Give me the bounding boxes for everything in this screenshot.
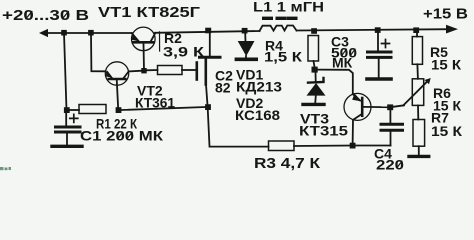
wire R6 to R7 [417,105,419,119]
resistor R4 [308,36,319,62]
node junction R4/VD2/VT3 [312,67,318,73]
svg-text:R3 4,7 К: R3 4,7 К [254,156,320,171]
wire artifact stub [159,32,161,51]
wire C2 down to bottom node [206,85,208,107]
wire top rail VT1 to L1 [155,31,260,33]
svg-text:C1 200 МК: C1 200 МК [80,128,164,144]
svg-text:КС168: КС168 [235,107,280,123]
node junction rail VD1 [242,28,248,34]
wire R7 bottom [418,146,420,154]
svg-text:3,9 К: 3,9 К [163,44,205,60]
wire VT3 base to R6 wiper [364,106,390,108]
transistor VT2 [105,62,128,85]
node junction VT3 base / C4 [387,104,393,110]
resistor R2 [158,66,183,75]
capacitor C4 [381,110,403,130]
svg-text:+15 В: +15 В [423,7,468,23]
transistor VT1 [132,27,156,51]
wire R1 left lead [70,109,79,111]
svg-text:КТ361: КТ361 [135,95,175,111]
wire bottom run from C2 node down and right [208,110,269,147]
svg-text:82: 82 [215,80,231,96]
wire node to R2 [146,69,158,71]
zener VD2 [307,73,326,103]
wire bottom node to C4 [356,145,391,147]
wire C2 top bar [200,56,221,59]
wire R2 to C2 [182,69,195,71]
watermark [0,167,11,170]
node input arrow [39,29,48,37]
svg-text:15 К: 15 К [431,57,461,73]
capacitor C1 [56,113,81,145]
node junction rail x64 [61,30,67,36]
capacitor C2 [197,59,206,85]
svg-text:КТ315: КТ315 [299,123,348,139]
ground bar VD2 [303,103,324,106]
ground bar R7 [409,155,429,158]
node junction rail x91 [88,30,94,36]
wire vertical from rail x91 to VT2 emitter [91,33,106,71]
wire rail stub to C2 bar [209,31,211,56]
ground bar C3 [367,77,391,81]
wire VT2 base down [117,81,118,109]
node junction R1 left / C1 [64,107,70,113]
resistor R7 [413,120,425,147]
potentiometer R6 [403,78,430,105]
svg-text:1,5 К: 1,5 К [264,49,303,65]
wire R1 right to C2 bottom node [121,107,205,110]
resistor R3 [269,141,295,151]
wire top rail L1 to right arrow [297,29,451,30]
node junction rail R4 [311,28,317,34]
resistor R5 [412,37,422,65]
inductor L1 [260,26,297,32]
svg-text:VT1 КТ825Г: VT1 КТ825Г [98,5,200,21]
wire R5 to R6 [416,64,419,79]
wire R4 bottom to node [314,61,315,67]
wire node to R6 wiper [393,105,404,107]
wire VT1 base down [143,44,146,70]
resistor R1 [79,105,106,114]
node junction rail x208 [205,28,211,34]
svg-text:+20...30 В: +20...30 В [2,8,89,24]
wire R4 node to VT3 collector [318,70,353,94]
wire VT3 emitter down [352,120,354,145]
node junction C2 bottom [205,104,211,110]
wire R3 to VT3 emitter node [294,145,353,148]
node junction VT1 base / R2 [141,68,146,73]
inductor L1 core dashes [264,17,296,20]
node junction rail C3 [375,27,381,33]
svg-text:15 К: 15 К [431,123,462,139]
wire VT2 collector to VT1 base node [129,70,144,73]
ground bar C1 [52,145,82,148]
node junction rail R5 [413,27,419,33]
slashed zeros [26,11,403,168]
node output arrow [446,25,458,34]
svg-text:МК: МК [332,55,353,71]
svg-text:L1 1 мГН: L1 1 мГН [253,0,324,15]
transistor VT3 [344,93,371,120]
wire vertical from rail x64 down to R1/C1 node [64,33,67,110]
diode VD1 [236,33,256,59]
svg-text:КД213: КД213 [236,79,282,95]
node junction VT3 emitter bottom [350,143,356,149]
wire top rail left segment [43,32,132,34]
wire C4 bottom lead [390,132,392,146]
capacitor C3 [368,33,392,77]
node junction R1 right / VT2 base [116,107,122,113]
